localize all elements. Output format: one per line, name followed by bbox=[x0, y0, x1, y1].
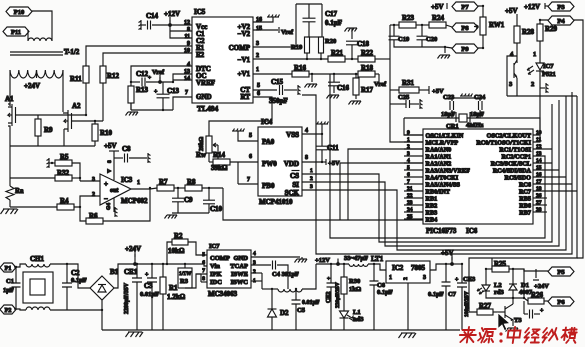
svg-text:P5: P5 bbox=[557, 269, 565, 276]
svg-text:RT: RT bbox=[241, 93, 251, 101]
wire +V2 to ground bbox=[253, 17, 273, 22]
svg-text:23: 23 bbox=[407, 200, 413, 206]
wire choke to bridge ac1 bbox=[50, 264, 90, 288]
resistor R14 bbox=[213, 159, 230, 165]
wire R27 to T3 base bbox=[493, 311, 505, 313]
wire R9 bottom bbox=[37, 136, 39, 146]
wire C15 to ground bbox=[284, 89, 297, 91]
wire C7 top bbox=[445, 264, 447, 282]
diode D2 bbox=[268, 309, 277, 317]
svg-text:Vref: Vref bbox=[374, 81, 387, 88]
wire P10 to coil bbox=[32, 11, 52, 41]
svg-text:5: 5 bbox=[202, 252, 205, 258]
svg-text:3: 3 bbox=[92, 177, 95, 183]
wire to VREF pin 14 bbox=[173, 79, 192, 81]
wire to opto ground bbox=[540, 87, 545, 89]
capacitor C8 bbox=[125, 154, 128, 163]
wire Ra to ground bbox=[9, 200, 11, 207]
svg-text:RC1/T1OSI: RC1/T1OSI bbox=[499, 147, 531, 154]
svg-text:21: 21 bbox=[407, 186, 413, 192]
svg-text:1: 1 bbox=[310, 168, 313, 174]
capacitor C23 bbox=[450, 98, 454, 118]
svg-text:LT1: LT1 bbox=[371, 255, 384, 263]
capacitor C14 bbox=[148, 21, 151, 30]
svg-text:+: + bbox=[327, 276, 330, 282]
wire C6 bottom bbox=[373, 285, 375, 330]
svg-text:C25: C25 bbox=[398, 94, 410, 101]
wire A2 source to rail bbox=[63, 129, 65, 146]
transistor A2 bbox=[67, 110, 69, 132]
wire op-amp G4 pin bbox=[113, 198, 115, 212]
svg-text:R28: R28 bbox=[522, 28, 535, 36]
wire vdd stub bbox=[322, 161, 326, 163]
resistor R10 bbox=[92, 124, 98, 141]
svg-text:3: 3 bbox=[256, 41, 259, 47]
wire C2 top bbox=[66, 264, 68, 283]
power +5V at P7 bbox=[446, 3, 448, 9]
wire bus SI riser bbox=[302, 100, 559, 246]
ground op-amp G4 bbox=[114, 207, 116, 217]
svg-text:PW0: PW0 bbox=[262, 160, 277, 168]
svg-text:C5: C5 bbox=[297, 307, 306, 314]
wire C2 bottom bbox=[66, 287, 68, 310]
svg-text:2: 2 bbox=[253, 269, 256, 275]
svg-text:OSC1/CLKIN: OSC1/CLKIN bbox=[426, 133, 464, 140]
connector P6 bbox=[548, 297, 574, 306]
svg-text:20kΩ: 20kΩ bbox=[199, 137, 205, 151]
wire C9 C10 ground rail bbox=[172, 212, 209, 214]
svg-text:P3: P3 bbox=[557, 4, 565, 11]
capacitor C25 bbox=[406, 100, 410, 108]
wire to cap bbox=[524, 313, 528, 315]
svg-text:C4 391pF: C4 391pF bbox=[272, 271, 299, 278]
wire R19 R20 tops bbox=[307, 36, 321, 38]
wire R21 to R22 bbox=[345, 58, 358, 60]
wire C4 right down bbox=[277, 265, 288, 289]
ground right of C25 bbox=[419, 99, 421, 109]
capacitor C16 bbox=[328, 82, 340, 86]
svg-text:C1: C1 bbox=[6, 278, 14, 285]
wire R17 top bbox=[355, 74, 357, 78]
svg-text:5: 5 bbox=[407, 165, 410, 171]
resistor R26 bbox=[528, 298, 544, 304]
svg-text:7: 7 bbox=[247, 177, 250, 183]
svg-text:26: 26 bbox=[536, 193, 542, 199]
wire op-amp out to R7 bbox=[131, 188, 157, 189]
svg-text:0.01μF: 0.01μF bbox=[302, 300, 320, 306]
wire P1 to choke bbox=[14, 264, 26, 267]
op-amp IC5 TL494 block bbox=[192, 17, 253, 103]
svg-text:3: 3 bbox=[423, 275, 426, 281]
watermark text 来源：中经纵横 bbox=[459, 327, 477, 343]
svg-text:RB7: RB7 bbox=[519, 210, 531, 217]
svg-text:Vin: Vin bbox=[210, 263, 220, 270]
svg-text:R14: R14 bbox=[213, 151, 226, 159]
wire gnd tap bbox=[311, 74, 313, 82]
svg-text:2200μF/35V: 2200μF/35V bbox=[124, 282, 130, 314]
resistor R3 bbox=[178, 268, 192, 288]
svg-text:R19: R19 bbox=[291, 44, 303, 51]
wire R11 to TL494 E1 bbox=[86, 46, 192, 66]
svg-text:6: 6 bbox=[249, 154, 252, 160]
svg-text:27: 27 bbox=[536, 200, 542, 206]
svg-text:Rw: Rw bbox=[196, 151, 207, 159]
ground right of opto bbox=[545, 83, 547, 93]
wire R8 out bbox=[202, 187, 223, 189]
wire to OC pin 13 bbox=[173, 74, 192, 82]
svg-text:8: 8 bbox=[187, 27, 190, 33]
resistor R25 bbox=[492, 266, 509, 272]
regulator IC2 7805 bbox=[386, 261, 430, 283]
svg-text:C16: C16 bbox=[337, 84, 350, 92]
wire CE2 bottom bbox=[330, 287, 332, 330]
svg-text:ISWE: ISWE bbox=[231, 271, 248, 278]
svg-text:+: + bbox=[148, 75, 151, 81]
wire R9 top bbox=[37, 115, 39, 119]
svg-text:17: 17 bbox=[536, 179, 542, 185]
svg-text:+24V: +24V bbox=[24, 82, 40, 90]
microcontroller IC6 PIC16F73 bbox=[423, 129, 533, 224]
svg-text:MCP602: MCP602 bbox=[121, 197, 148, 205]
wire Vref tick stub bbox=[159, 77, 161, 82]
wire op-amp V+ pin bbox=[113, 151, 115, 180]
svg-text:C12: C12 bbox=[136, 70, 149, 78]
svg-text:PIC16F73: PIC16F73 bbox=[426, 227, 457, 235]
wire R6 feedback to output bbox=[103, 188, 150, 221]
wire P4 to R29 bbox=[540, 20, 548, 24]
capacitor CE2 bbox=[327, 283, 336, 287]
wire RC4 stub bbox=[533, 169, 559, 171]
wire to R4 bbox=[10, 206, 57, 208]
wire source rail bbox=[10, 145, 95, 147]
wire C5 bottom bbox=[295, 304, 297, 330]
svg-text:7: 7 bbox=[407, 179, 410, 185]
svg-text:1μF: 1μF bbox=[3, 287, 14, 294]
svg-text:+5V: +5V bbox=[441, 249, 454, 257]
svg-text:6: 6 bbox=[257, 91, 260, 97]
ground tap on +V1 line bbox=[307, 83, 317, 85]
ground below C9 bbox=[167, 214, 177, 216]
svg-text:T-1/2: T-1/2 bbox=[64, 48, 80, 56]
svg-text:RA2/AN2: RA2/AN2 bbox=[426, 161, 452, 168]
ground right of MC34063 bbox=[297, 258, 307, 260]
svg-text:10kΩ: 10kΩ bbox=[168, 247, 185, 255]
svg-text:4: 4 bbox=[510, 51, 514, 58]
connector P2 bbox=[0, 305, 16, 314]
svg-text:25: 25 bbox=[407, 214, 413, 220]
svg-text:D1: D1 bbox=[521, 282, 529, 289]
svg-text:G4: G4 bbox=[106, 203, 112, 210]
wire COMP pin3 bbox=[253, 46, 296, 48]
capacitor C18 bbox=[346, 41, 358, 45]
svg-text:TCAP: TCAP bbox=[230, 263, 248, 270]
resistor R13 bbox=[128, 86, 134, 103]
svg-text:+12V: +12V bbox=[315, 257, 330, 264]
wire rail to Vin bbox=[204, 264, 207, 266]
resistor R5 bbox=[55, 160, 72, 166]
connector P10 bbox=[6, 7, 32, 16]
resistor R16 bbox=[292, 71, 309, 77]
wire C6 top bbox=[373, 264, 375, 281]
wire RT to Rw bbox=[209, 97, 272, 136]
wire P2 to choke bbox=[14, 309, 26, 310]
svg-text:IC6: IC6 bbox=[466, 227, 478, 235]
wire IDC stub bbox=[201, 281, 207, 283]
choke CH1 bbox=[23, 272, 53, 303]
svg-text:C20: C20 bbox=[426, 36, 437, 43]
svg-text:R23: R23 bbox=[402, 14, 415, 22]
wire to C2 pin bbox=[170, 25, 192, 38]
svg-text:+12V: +12V bbox=[164, 10, 180, 18]
svg-text:C10: C10 bbox=[210, 205, 223, 213]
resistor R2 bbox=[172, 239, 188, 245]
svg-text:+5V: +5V bbox=[104, 142, 117, 150]
capacitor C1 bbox=[12, 283, 21, 287]
wire transformer left leg bbox=[9, 70, 11, 106]
wire rail down to Ra bbox=[9, 146, 11, 186]
resistor R1 bbox=[160, 277, 166, 294]
svg-text:P7: P7 bbox=[461, 4, 469, 11]
svg-text:P4: P4 bbox=[557, 18, 565, 25]
wire LED cathode down bbox=[539, 71, 541, 88]
svg-text:RB4: RB4 bbox=[426, 217, 438, 224]
svg-text:R24: R24 bbox=[432, 14, 445, 22]
svg-text:E2: E2 bbox=[196, 51, 205, 59]
wire bus CS riser bbox=[302, 104, 552, 242]
svg-text:18pF: 18pF bbox=[470, 111, 484, 118]
resistor R19 bbox=[305, 37, 310, 53]
bridge rectifier B1 bbox=[90, 276, 114, 300]
wire C20 top bbox=[421, 25, 423, 36]
ground under R13 bbox=[128, 111, 138, 113]
wire C12 to Vref node bbox=[146, 81, 173, 83]
svg-text:P521: P521 bbox=[542, 71, 556, 78]
svg-text:RA5/AN4/SS: RA5/AN4/SS bbox=[426, 182, 461, 189]
power +5V output bbox=[451, 254, 453, 260]
svg-text:R3: R3 bbox=[180, 278, 189, 285]
wire PIC left pin stubs bbox=[404, 134, 423, 136]
resistor Ra bbox=[6, 186, 14, 200]
wire R13 bottom bbox=[130, 103, 132, 110]
wire trunk to R23 bbox=[390, 24, 399, 26]
svg-text:CS: CS bbox=[290, 172, 299, 180]
svg-text:8: 8 bbox=[202, 276, 205, 282]
svg-text:RC0/T1OSO/T1CKI: RC0/T1OSO/T1CKI bbox=[476, 140, 531, 147]
wire +24V tick bbox=[134, 254, 136, 264]
wire ISWC bbox=[251, 280, 262, 282]
svg-text:RA0/AN0: RA0/AN0 bbox=[426, 147, 452, 154]
svg-text:RC7: RC7 bbox=[519, 189, 531, 196]
wire L2 to node bbox=[486, 291, 524, 298]
svg-text:IDC: IDC bbox=[210, 279, 222, 286]
capacitor C15 bbox=[280, 85, 283, 95]
svg-text:R20: R20 bbox=[325, 38, 336, 45]
wire down to LED L2 bbox=[485, 269, 487, 287]
svg-text:COMP: COMP bbox=[210, 255, 230, 262]
svg-text:R30: R30 bbox=[349, 278, 360, 285]
wire C19 rail to P9 bbox=[445, 47, 452, 48]
wire transformer right leg bbox=[62, 70, 64, 112]
wire A2 gate line bbox=[72, 120, 104, 122]
svg-text:MCLR/VPP: MCLR/VPP bbox=[426, 140, 459, 147]
wire junction to R14 bbox=[209, 161, 213, 163]
capacitor C3 bbox=[147, 278, 157, 282]
wire CE1 top bbox=[136, 264, 138, 278]
wire C8 to ground bbox=[129, 157, 147, 159]
svg-text:L1: L1 bbox=[353, 309, 361, 316]
svg-text:7805: 7805 bbox=[411, 264, 426, 272]
wire +5V node right bbox=[452, 263, 462, 265]
power Vref at -V2 bbox=[278, 27, 280, 33]
svg-text:C9: C9 bbox=[184, 196, 193, 204]
wire gnd to C14 bbox=[141, 24, 146, 26]
wire bus RC2 loop bbox=[330, 74, 545, 238]
wire tick stub bbox=[337, 261, 339, 264]
resistor R6 bbox=[86, 218, 103, 224]
svg-text:R21: R21 bbox=[331, 49, 344, 57]
wire C5 top bbox=[295, 289, 297, 300]
power +24V rail bbox=[134, 251, 136, 257]
svg-text:TL494: TL494 bbox=[197, 104, 219, 113]
capacitor CE3 bbox=[457, 283, 467, 287]
svg-text:4: 4 bbox=[187, 62, 190, 68]
wire 7805 out bbox=[430, 264, 452, 270]
svg-text:0.1μF: 0.1μF bbox=[71, 277, 87, 284]
wire bridge neg down bbox=[101, 300, 103, 330]
svg-text:R27: R27 bbox=[479, 302, 492, 310]
diode D1 bbox=[509, 284, 517, 290]
svg-text:R8: R8 bbox=[187, 178, 196, 186]
wire R30 to L1 bbox=[343, 294, 345, 311]
svg-text:R16: R16 bbox=[294, 64, 307, 72]
wire R26 to P6 bbox=[544, 300, 548, 302]
svg-text:RB1: RB1 bbox=[426, 196, 438, 203]
svg-text:1kΩ: 1kΩ bbox=[349, 286, 361, 293]
svg-text:VDD: VDD bbox=[284, 160, 299, 168]
op-amp IC3 MCP602 bbox=[100, 174, 131, 205]
optocoupler IC7 P521 bbox=[513, 63, 515, 78]
svg-text:T3: T3 bbox=[514, 317, 522, 324]
svg-text:R11: R11 bbox=[70, 75, 82, 83]
ground under T3 bbox=[508, 327, 518, 329]
wire to C1 pin bbox=[170, 30, 192, 32]
svg-text:R2: R2 bbox=[174, 232, 183, 240]
svg-text:SCK: SCK bbox=[285, 189, 300, 197]
wire R2 to COMP bbox=[188, 242, 207, 255]
wire Rw bottom bbox=[208, 153, 210, 162]
svg-text:16: 16 bbox=[536, 172, 542, 178]
svg-text:R29: R29 bbox=[545, 25, 558, 33]
svg-text:33~47μF: 33~47μF bbox=[344, 255, 368, 262]
wire to L bbox=[262, 288, 278, 290]
svg-text:18pF: 18pF bbox=[441, 111, 455, 118]
svg-text:8: 8 bbox=[305, 155, 308, 161]
svg-text:GND: GND bbox=[196, 93, 212, 101]
wire bus SCK riser bbox=[302, 96, 566, 250]
wire R7 to R8 bbox=[174, 187, 185, 189]
LED L1 bbox=[340, 311, 349, 318]
svg-text:+12V: +12V bbox=[524, 3, 540, 11]
wire DTC ground rail bbox=[131, 109, 173, 111]
svg-text:+5V: +5V bbox=[431, 3, 444, 11]
op-amp IC7 MC34063 block bbox=[207, 250, 251, 288]
svg-text:CE1: CE1 bbox=[124, 268, 138, 276]
center tap +24V bbox=[36, 70, 38, 78]
wire C16 top bbox=[333, 74, 335, 82]
transformer T-1/2 core bbox=[10, 52, 63, 55]
svg-text:+5V: +5V bbox=[432, 88, 444, 95]
potentiometer RW1 bbox=[480, 17, 486, 35]
svg-text:R12: R12 bbox=[107, 72, 120, 80]
svg-text:P6: P6 bbox=[557, 299, 565, 306]
wire RA0 analog input bbox=[348, 149, 423, 220]
svg-text:B1: B1 bbox=[110, 268, 119, 276]
ground between C23 C24 bbox=[452, 97, 480, 99]
wire R25 left bbox=[486, 268, 492, 270]
ground below Ra bbox=[3, 208, 17, 210]
wire trunk to C25 bbox=[390, 103, 406, 105]
resistor R12 bbox=[100, 66, 106, 83]
svg-text:11: 11 bbox=[184, 34, 190, 40]
wire CE3 bottom bbox=[461, 287, 463, 330]
svg-text:CH1: CH1 bbox=[30, 255, 45, 263]
svg-text:0.1μF: 0.1μF bbox=[377, 289, 393, 296]
wire gnd to PA0 bbox=[238, 131, 258, 141]
connector P3 bbox=[548, 2, 574, 11]
resistor R21 bbox=[328, 56, 345, 62]
wire R3 to IPK bbox=[185, 274, 207, 288]
svg-text:C2: C2 bbox=[71, 269, 80, 277]
svg-text:−V2: −V2 bbox=[237, 30, 250, 38]
svg-text:28: 28 bbox=[536, 207, 542, 213]
svg-text:V: V bbox=[107, 169, 113, 173]
svg-text:1: 1 bbox=[256, 67, 259, 73]
wire signal line to PIC RB4 bbox=[223, 188, 423, 220]
svg-text:RC6: RC6 bbox=[519, 182, 531, 189]
wire right edge loop from P4 bbox=[574, 20, 583, 258]
resistor R32 bbox=[55, 175, 72, 181]
wire A1 drain bbox=[8, 104, 10, 106]
svg-text:R32: R32 bbox=[57, 169, 70, 177]
wire R25 right bbox=[509, 269, 524, 271]
wire C13 bottom bbox=[162, 98, 164, 110]
svg-text:L2: L2 bbox=[494, 282, 502, 289]
wire R29 to LED bbox=[539, 41, 541, 63]
svg-text:R26: R26 bbox=[531, 291, 544, 299]
wire C1 top bbox=[15, 267, 17, 283]
wire R24 to P8 bbox=[446, 25, 452, 27]
svg-text:C6: C6 bbox=[377, 282, 386, 289]
svg-text:24: 24 bbox=[407, 207, 413, 213]
wire T3 emitter bbox=[512, 320, 514, 326]
wire PB0 loop bbox=[237, 162, 239, 184]
svg-text:R25: R25 bbox=[494, 260, 507, 268]
svg-text:1/1W: 1/1W bbox=[179, 271, 192, 277]
wire gnd to C18 bbox=[351, 28, 353, 39]
svg-text:C13: C13 bbox=[167, 87, 180, 95]
svg-text:COMP: COMP bbox=[229, 44, 251, 52]
wire C20 bottom bbox=[421, 40, 423, 47]
svg-text:1: 1 bbox=[389, 275, 392, 281]
svg-text:nd3: nd3 bbox=[353, 316, 364, 323]
wire ipk join bbox=[196, 273, 201, 275]
wire DTC pin 4 left down bbox=[131, 66, 192, 110]
capacitor C17 network bbox=[296, 4, 322, 47]
wire gnd to R5 bbox=[49, 162, 55, 164]
wire -V2 to Vref bbox=[253, 29, 278, 31]
wire R6 to inverting node bbox=[80, 207, 86, 221]
svg-text:GND: GND bbox=[234, 255, 249, 262]
